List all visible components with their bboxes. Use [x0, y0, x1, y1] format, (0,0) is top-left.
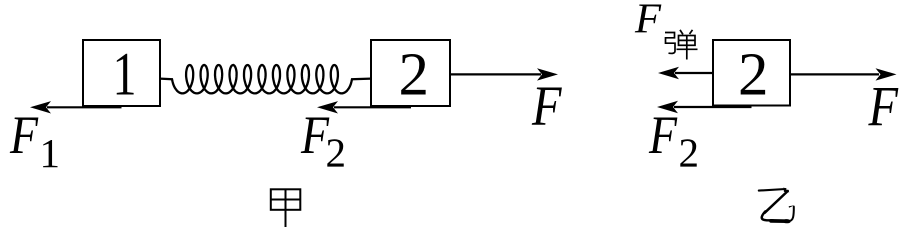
force F2 arrow (right diagram) [657, 101, 752, 113]
label F2 (right diagram) [648, 105, 699, 176]
svg-text:2: 2 [679, 130, 700, 176]
svg-text:F: F [634, 0, 662, 43]
svg-text:F: F [868, 76, 899, 139]
svg-text:1: 1 [113, 41, 137, 108]
force F1 arrow [30, 101, 122, 113]
svg-text:F: F [648, 105, 678, 165]
svg-text:2: 2 [738, 42, 769, 109]
block 2 (right diagram) [713, 40, 790, 106]
spring [160, 65, 371, 93]
caption yi (CJK) [759, 187, 795, 223]
label F_spring subscript tan (CJK) [665, 30, 698, 60]
force F_spring arrow (right diagram) [658, 67, 713, 79]
block 1 [83, 40, 160, 106]
force F arrow (left diagram) [450, 68, 558, 80]
svg-text:F: F [9, 105, 39, 165]
caption jia (CJK) [270, 189, 301, 228]
block 2 (left diagram) [371, 40, 450, 106]
force F arrow (right diagram) [790, 68, 897, 80]
label F1 [9, 105, 60, 176]
force F2 arrow (left diagram) [317, 101, 411, 113]
svg-text:F: F [531, 75, 562, 138]
label F2 (left diagram) [300, 105, 346, 176]
svg-text:2: 2 [326, 130, 347, 176]
svg-text:1: 1 [40, 130, 61, 176]
svg-text:2: 2 [399, 41, 430, 108]
